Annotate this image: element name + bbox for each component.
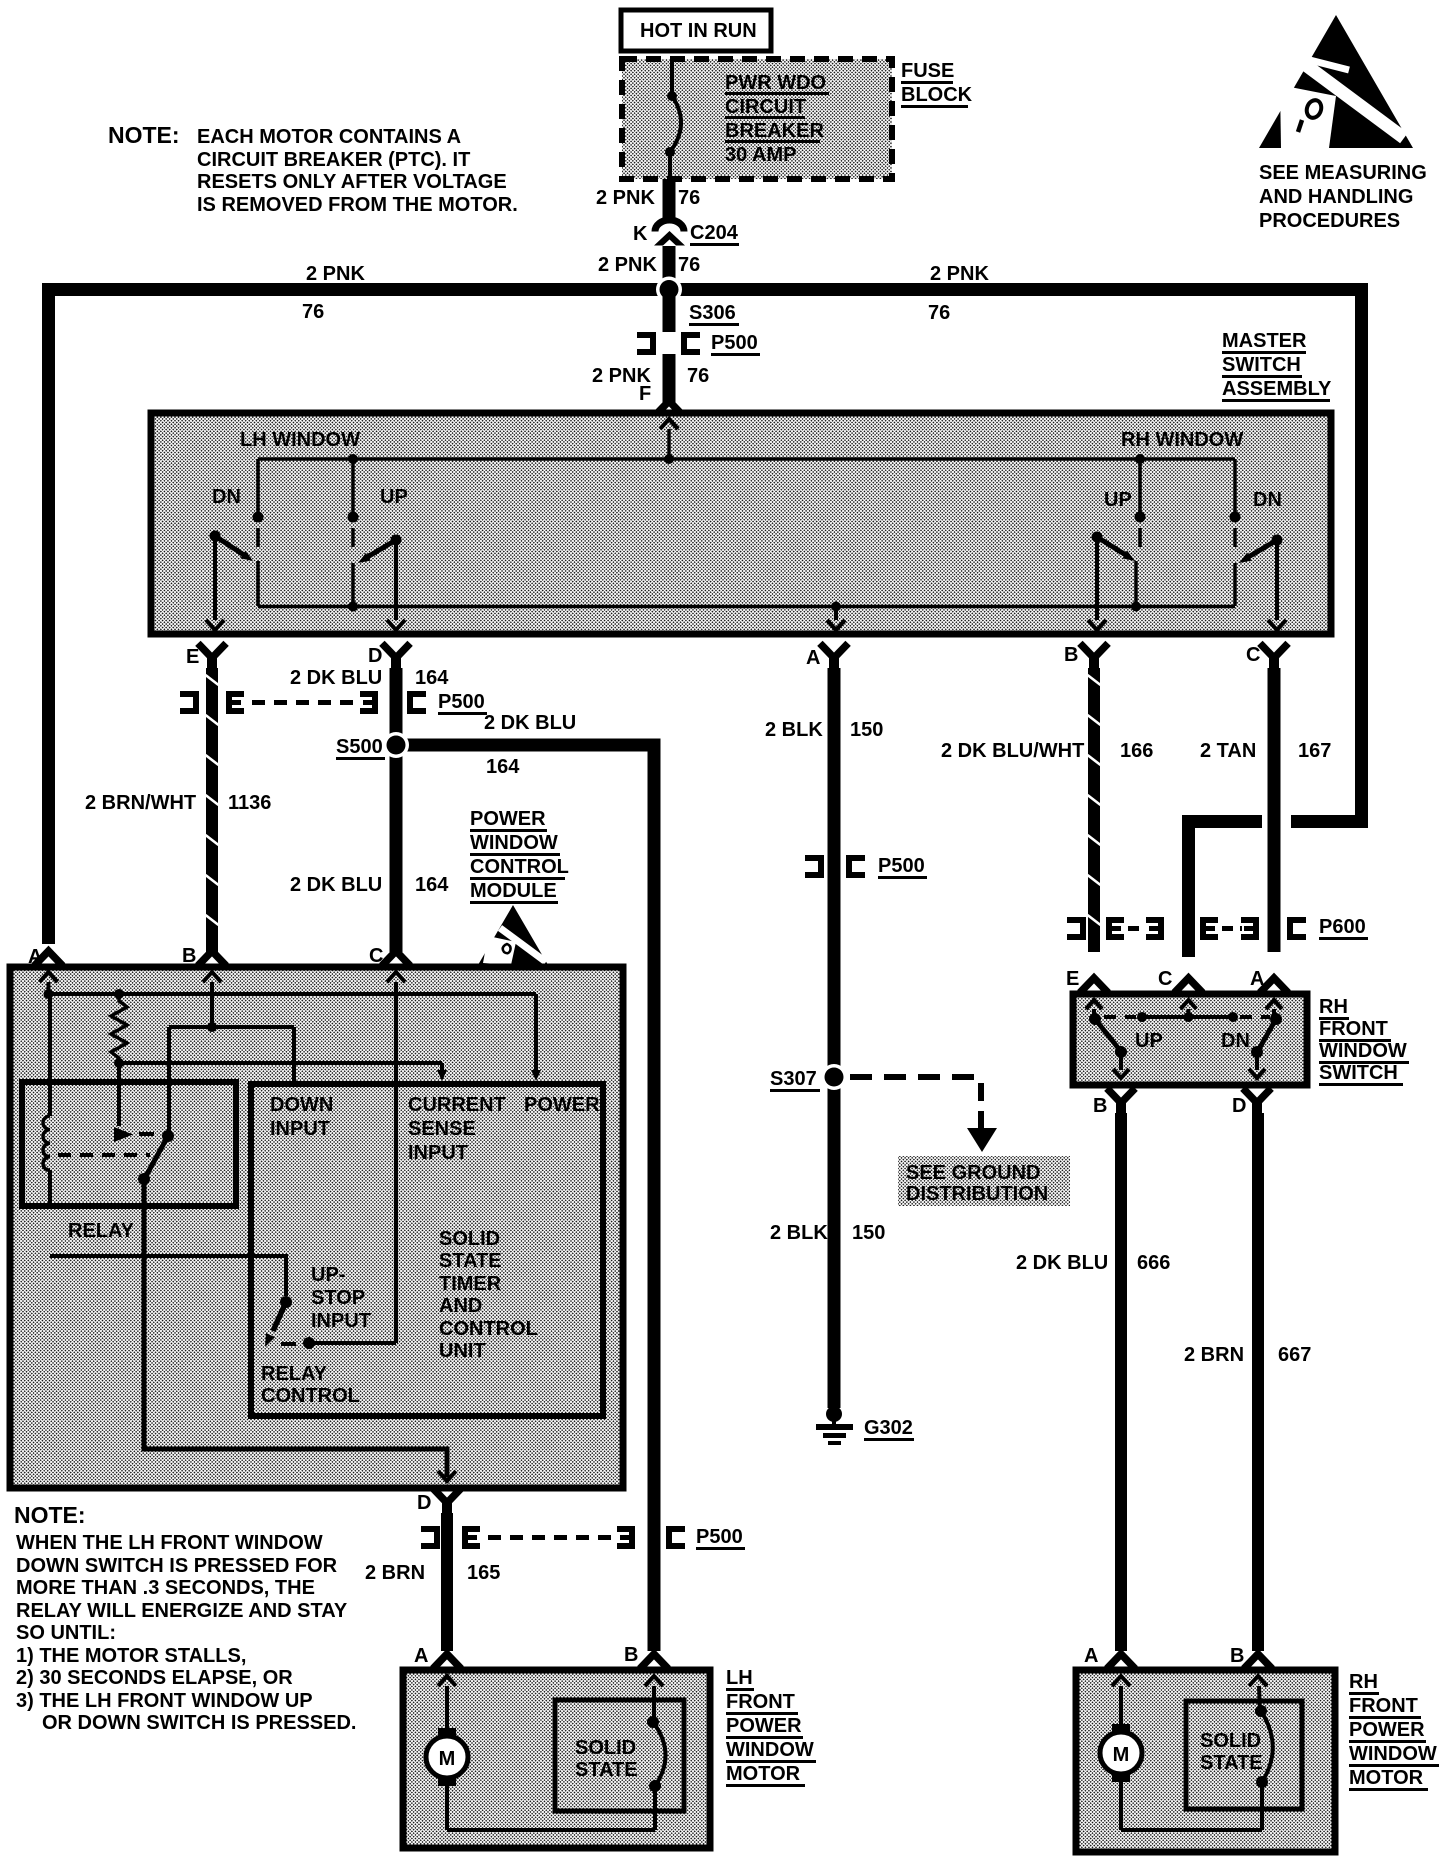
- connector P600: [1067, 917, 1306, 940]
- wire internal feed bus of master switch: [258, 419, 1235, 464]
- svg-text:WINDOW: WINDOW: [470, 832, 558, 854]
- svg-text:2 DK BLU/WHT: 2 DK BLU/WHT: [941, 740, 1084, 762]
- label 2 PNK 76: [596, 187, 700, 209]
- label DOWN INPUT: [270, 1094, 333, 1140]
- svg-text:A: A: [28, 946, 42, 968]
- label PWR WDO CIRCUIT BREAKER 30 AMP: [725, 72, 829, 166]
- connector P500 (ground wire): [805, 855, 865, 878]
- wire down input to solid state unit: [292, 1027, 296, 1082]
- terminal A of RH switch: [1250, 968, 1286, 990]
- switch RH window DN (master): [1230, 459, 1283, 606]
- circuit breaker PTC inside RH motor: [1255, 1705, 1273, 1788]
- svg-text:LH: LH: [726, 1667, 753, 1689]
- module pin A entry arrow: [40, 972, 58, 994]
- label P500: [878, 855, 927, 879]
- wire 2 DK BLU/WHT 166 master B to RH switch E: [1088, 668, 1101, 952]
- label 2 BLK 150 (upper): [765, 719, 883, 741]
- svg-text:SEE GROUND: SEE GROUND: [906, 1162, 1040, 1184]
- svg-text:FRONT: FRONT: [1349, 1695, 1418, 1717]
- wire 2 BRN 165 module D to LH motor A: [441, 1513, 453, 1651]
- label S306: [689, 302, 739, 326]
- solid state unit box (LH motor): [555, 1700, 684, 1811]
- svg-text:C: C: [1246, 644, 1260, 666]
- svg-text:76: 76: [928, 302, 950, 324]
- motor M (LH): [426, 1728, 468, 1786]
- RH switch pin A entry arrow: [1266, 1000, 1282, 1016]
- switch RH DN contact: [1249, 1013, 1282, 1078]
- terminal D of master switch: [368, 645, 408, 670]
- RH switch pin E entry arrow: [1086, 1000, 1102, 1016]
- label P500: [696, 1526, 745, 1550]
- wire RH motor internal loop: [1121, 1782, 1262, 1830]
- wire internal ground bus of master switch: [258, 602, 1235, 612]
- solid state timer and control unit box: [251, 1084, 603, 1416]
- svg-text:INPUT: INPUT: [270, 1118, 330, 1140]
- splice S500: [383, 732, 409, 758]
- svg-text:S500: S500: [336, 736, 383, 758]
- svg-text:NOTE:: NOTE:: [108, 122, 180, 148]
- terminal D of RH switch: [1232, 1091, 1269, 1117]
- svg-text:PWR WDO: PWR WDO: [725, 72, 826, 94]
- label SEE GROUND DISTRIBUTION: [898, 1156, 1070, 1206]
- svg-text:167: 167: [1298, 740, 1331, 762]
- svg-text:D: D: [417, 1492, 431, 1514]
- svg-text:P500: P500: [711, 332, 758, 354]
- svg-text:WINDOW: WINDOW: [1319, 1040, 1407, 1062]
- svg-text:2 PNK: 2 PNK: [930, 263, 989, 285]
- svg-text:CONTROL: CONTROL: [439, 1318, 538, 1340]
- svg-text:P500: P500: [696, 1526, 743, 1548]
- label P500: [438, 691, 487, 715]
- svg-text:667: 667: [1278, 1344, 1311, 1366]
- terminal B of RH switch: [1093, 1091, 1133, 1117]
- svg-text:SEE MEASURING: SEE MEASURING: [1259, 162, 1427, 184]
- svg-text:MORE THAN .3 SECONDS, THE: MORE THAN .3 SECONDS, THE: [16, 1577, 315, 1599]
- svg-text:OR DOWN SWITCH IS PRESSED.: OR DOWN SWITCH IS PRESSED.: [42, 1712, 356, 1734]
- wire 2 DK BLU 666 RH switch B to RH motor A: [1115, 1113, 1127, 1651]
- terminal C of RH switch: [1158, 968, 1200, 990]
- svg-text:RH: RH: [1349, 1671, 1378, 1693]
- wire master switch output B: [1088, 537, 1106, 630]
- svg-text:A: A: [1250, 968, 1264, 990]
- label UP-STOP INPUT: [311, 1264, 371, 1332]
- svg-text:MOTOR: MOTOR: [1349, 1767, 1424, 1789]
- label SOLID STATE: [575, 1737, 638, 1781]
- wire 2 BLK 150 master A to ground: [828, 668, 841, 1408]
- svg-text:SOLID: SOLID: [575, 1737, 636, 1759]
- svg-text:P600: P600: [1319, 916, 1366, 938]
- note: each motor contains a circuit breaker: [108, 122, 518, 216]
- circuit breaker PWR WDO 30 AMP: [665, 62, 681, 179]
- module pin C entry arrow: [387, 972, 405, 1343]
- wire module internal feed from A: [44, 989, 537, 999]
- wire 2 PNK 76 bus right branch to RH front window switch pin C: [675, 290, 1362, 823]
- ground G302: [816, 1406, 853, 1445]
- svg-text:B: B: [1064, 644, 1078, 666]
- label 2 BLK 150 (lower): [770, 1222, 885, 1244]
- svg-text:EACH MOTOR CONTAINS A: EACH MOTOR CONTAINS A: [197, 126, 461, 148]
- terminal A of RH motor: [1084, 1645, 1133, 1667]
- svg-text:SOLID: SOLID: [1200, 1730, 1261, 1752]
- svg-text:2 BRN: 2 BRN: [1184, 1344, 1244, 1366]
- terminal A of module: [28, 946, 60, 968]
- terminal A of LH motor: [414, 1645, 459, 1667]
- svg-text:164: 164: [415, 874, 449, 896]
- svg-text:WINDOW: WINDOW: [1349, 1743, 1437, 1765]
- svg-text:CIRCUIT BREAKER (PTC). IT: CIRCUIT BREAKER (PTC). IT: [197, 149, 470, 171]
- label 2 PNK 76: [598, 254, 700, 276]
- svg-text:A: A: [414, 1645, 428, 1667]
- svg-text:DISTRIBUTION: DISTRIBUTION: [906, 1183, 1048, 1205]
- splice S307: [821, 1064, 847, 1090]
- label 2 BRN/WHT 1136: [85, 792, 271, 814]
- svg-text:166: 166: [1120, 740, 1153, 762]
- solid state unit box (RH motor): [1186, 1701, 1302, 1809]
- svg-text:UP: UP: [380, 486, 408, 508]
- wire current sense input to solid state unit: [119, 1063, 447, 1081]
- node HOT IN RUN feed box: [621, 10, 771, 51]
- connector C204 pin K: [633, 220, 685, 245]
- LH motor pin A entry arrow: [438, 1676, 456, 1729]
- module pin B entry arrow: [203, 972, 221, 1027]
- label 2 PNK 76 (left bus): [302, 263, 365, 323]
- wire 2 DK BLU 164 S500 branch to LH motor B: [402, 745, 654, 1651]
- terminal F at master switch assembly: [658, 401, 681, 413]
- svg-text:SWITCH: SWITCH: [1222, 354, 1301, 376]
- svg-text:S307: S307: [770, 1068, 817, 1090]
- label 2 DK BLU/WHT 166: [941, 740, 1153, 762]
- svg-text:RH: RH: [1319, 996, 1348, 1018]
- switch RH UP contact: [1089, 1013, 1129, 1078]
- label LH FRONT POWER WINDOW MOTOR: [726, 1667, 816, 1787]
- label 2 DK BLU 164 (lower): [290, 874, 449, 896]
- label P500: [711, 332, 760, 356]
- label 2 PNK 76 (right bus): [928, 263, 989, 324]
- RH switch pin C entry arrow: [1181, 1000, 1197, 1017]
- svg-text:PROCEDURES: PROCEDURES: [1259, 210, 1400, 232]
- RH motor pin B entry arrow: [1249, 1676, 1267, 1711]
- svg-text:C: C: [369, 945, 383, 967]
- master switch assembly box: [151, 413, 1331, 634]
- wire 2 PNK 76 fuse block to C204: [663, 179, 676, 222]
- label POWER WINDOW CONTROL MODULE: [470, 808, 569, 904]
- switch LH window UP (master): [348, 459, 402, 606]
- svg-text:M: M: [1113, 1744, 1130, 1766]
- RH front window switch box: [1073, 994, 1307, 1085]
- svg-text:STATE: STATE: [439, 1250, 502, 1272]
- svg-text:TIMER: TIMER: [439, 1273, 502, 1295]
- label RH FRONT WINDOW SWITCH: [1319, 996, 1409, 1086]
- switch LH window DN (master): [210, 459, 264, 606]
- wire 2 PNK 76 bus left branch to power window control module pin A: [49, 290, 664, 945]
- svg-text:C204: C204: [690, 222, 739, 244]
- svg-text:F: F: [639, 383, 651, 405]
- svg-text:2 BRN: 2 BRN: [365, 1562, 425, 1584]
- terminal B of module: [182, 945, 224, 967]
- svg-text:76: 76: [678, 187, 700, 209]
- svg-text:AND: AND: [439, 1295, 482, 1317]
- svg-text:DN: DN: [212, 486, 241, 508]
- svg-text:STATE: STATE: [575, 1759, 638, 1781]
- terminal B of LH motor: [624, 1644, 666, 1666]
- svg-text:CURRENT: CURRENT: [408, 1094, 506, 1116]
- wire dashed branch to ground distribution: [850, 1077, 997, 1152]
- svg-text:INPUT: INPUT: [408, 1142, 468, 1164]
- svg-text:2 DK BLU: 2 DK BLU: [290, 667, 382, 689]
- svg-text:M: M: [439, 1748, 456, 1770]
- svg-text:2 PNK: 2 PNK: [596, 187, 655, 209]
- svg-text:DN: DN: [1221, 1030, 1250, 1052]
- wire master switch output A: [827, 606, 845, 630]
- RH front power window motor box: [1076, 1670, 1335, 1852]
- svg-text:1) THE MOTOR STALLS,: 1) THE MOTOR STALLS,: [16, 1645, 246, 1667]
- label FUSE BLOCK: [901, 60, 973, 108]
- ESD symbol at module: [478, 905, 548, 965]
- svg-text:E: E: [1066, 968, 1079, 990]
- wire relay fixed contact: [114, 1063, 154, 1142]
- switch RH window UP (master): [1092, 459, 1146, 606]
- svg-text:STOP: STOP: [311, 1287, 365, 1309]
- wire LH motor internal loop: [447, 1786, 655, 1830]
- svg-text:2 TAN: 2 TAN: [1200, 740, 1256, 762]
- svg-text:CIRCUIT: CIRCUIT: [725, 96, 806, 118]
- svg-text:SOLID: SOLID: [439, 1228, 500, 1250]
- circuit breaker PTC inside LH motor: [647, 1716, 666, 1792]
- svg-text:RELAY WILL ENERGIZE AND STAY: RELAY WILL ENERGIZE AND STAY: [16, 1600, 348, 1622]
- wire master switch output E: [206, 536, 224, 630]
- svg-text:DN: DN: [1253, 489, 1282, 511]
- svg-text:BREAKER: BREAKER: [725, 120, 824, 142]
- svg-text:UP: UP: [1104, 489, 1132, 511]
- svg-text:B: B: [1093, 1095, 1107, 1117]
- svg-text:RH WINDOW: RH WINDOW: [1121, 429, 1243, 451]
- svg-text:FRONT: FRONT: [726, 1691, 795, 1713]
- wire up-stop input from coil region: [50, 1256, 286, 1296]
- label 2 BRN 667: [1184, 1344, 1311, 1366]
- svg-text:SENSE: SENSE: [408, 1118, 476, 1140]
- svg-text:164: 164: [486, 756, 520, 778]
- svg-text:POWER: POWER: [470, 808, 546, 830]
- svg-text:FRONT: FRONT: [1319, 1018, 1388, 1040]
- svg-text:S306: S306: [689, 302, 736, 324]
- svg-text:MASTER: MASTER: [1222, 330, 1307, 352]
- terminal B of master switch: [1064, 644, 1106, 670]
- svg-text:WINDOW: WINDOW: [726, 1739, 814, 1761]
- wire relay control output to module D: [144, 1179, 456, 1481]
- relay mechanical link (dashed): [58, 1153, 150, 1157]
- motor M (RH): [1100, 1724, 1142, 1782]
- svg-text:2 BRN/WHT: 2 BRN/WHT: [85, 792, 196, 814]
- svg-text:RESETS ONLY AFTER VOLTAGE: RESETS ONLY AFTER VOLTAGE: [197, 171, 507, 193]
- wire B down input junction: [169, 1022, 294, 1032]
- up-stop switch: [265, 1296, 396, 1349]
- svg-text:2 PNK: 2 PNK: [306, 263, 365, 285]
- ESD static sensitive symbol: [1259, 15, 1413, 148]
- svg-text:POWER: POWER: [524, 1094, 600, 1116]
- svg-text:C: C: [1158, 968, 1172, 990]
- svg-text:2 DK BLU: 2 DK BLU: [484, 712, 576, 734]
- resistor (current sense shunt): [111, 994, 127, 1063]
- wire 2 PNK 76 S306 to P500: [663, 296, 676, 332]
- svg-text:2 PNK: 2 PNK: [598, 254, 657, 276]
- wire 2 DK BLU 164 master D to module C: [390, 668, 403, 952]
- label 2 BRN 165: [365, 1562, 500, 1584]
- connector P500 (module side): [180, 691, 426, 714]
- svg-text:76: 76: [678, 254, 700, 276]
- label RELAY CONTROL: [261, 1363, 360, 1407]
- wire 2 TAN 167 master C to RH switch A: [1268, 668, 1281, 952]
- svg-text:A: A: [1084, 1645, 1098, 1667]
- svg-text:WHEN THE LH FRONT WINDOW: WHEN THE LH FRONT WINDOW: [16, 1532, 323, 1554]
- svg-text:P500: P500: [438, 691, 485, 713]
- label 2 DK BLU 666: [1016, 1252, 1170, 1274]
- wire down input to relay armature: [167, 1027, 171, 1133]
- svg-text:E: E: [186, 646, 199, 668]
- relay coil: [43, 994, 50, 1203]
- svg-text:150: 150: [852, 1222, 885, 1244]
- svg-text:2) 30 SECONDS ELAPSE, OR: 2) 30 SECONDS ELAPSE, OR: [16, 1667, 293, 1689]
- svg-text:A: A: [806, 647, 820, 669]
- svg-text:30 AMP: 30 AMP: [725, 144, 797, 166]
- svg-text:CONTROL: CONTROL: [261, 1385, 360, 1407]
- svg-text:2 BLK: 2 BLK: [770, 1222, 828, 1244]
- terminal B of RH motor: [1230, 1645, 1270, 1667]
- svg-text:UP-: UP-: [311, 1264, 345, 1286]
- splice S306: [656, 277, 682, 303]
- label 2 DK BLU 164 (upper): [290, 667, 449, 689]
- svg-text:76: 76: [687, 365, 709, 387]
- svg-text:ASSEMBLY: ASSEMBLY: [1222, 378, 1332, 400]
- svg-text:B: B: [182, 945, 196, 967]
- svg-text:FUSE: FUSE: [901, 60, 954, 82]
- connector P500 on feed wire: [637, 332, 700, 355]
- svg-text:IS REMOVED FROM THE MOTOR.: IS REMOVED FROM THE MOTOR.: [197, 194, 518, 216]
- svg-text:BLOCK: BLOCK: [901, 84, 973, 106]
- label MASTER SWITCH ASSEMBLY: [1222, 330, 1332, 402]
- label 2 DK BLU 164 (branch): [484, 712, 576, 778]
- svg-text:INPUT: INPUT: [311, 1310, 371, 1332]
- svg-text:SO UNTIL:: SO UNTIL:: [16, 1622, 116, 1644]
- svg-text:164: 164: [415, 667, 449, 689]
- svg-text:150: 150: [850, 719, 883, 741]
- svg-text:MOTOR: MOTOR: [726, 1763, 801, 1785]
- svg-text:POWER: POWER: [726, 1715, 802, 1737]
- LH motor pin B entry arrow: [645, 1676, 663, 1720]
- label C204: [690, 222, 739, 246]
- svg-text:3) THE LH FRONT WINDOW UP: 3) THE LH FRONT WINDOW UP: [16, 1690, 313, 1712]
- terminal C of module: [369, 945, 408, 967]
- label SOLID STATE: [1200, 1730, 1263, 1774]
- wire 2 PNK jog toward P600: [1182, 822, 1368, 958]
- wire RH switch rest contact bar: [1104, 1012, 1270, 1022]
- svg-text:2 BLK: 2 BLK: [765, 719, 823, 741]
- svg-text:666: 666: [1137, 1252, 1170, 1274]
- svg-text:2 DK BLU: 2 DK BLU: [1016, 1252, 1108, 1274]
- label 2 TAN 167: [1200, 740, 1331, 762]
- svg-text:UNIT: UNIT: [439, 1340, 486, 1362]
- svg-text:76: 76: [302, 301, 324, 323]
- terminal E of RH switch: [1066, 968, 1106, 990]
- label CURRENT POWER SENSE INPUT: [408, 1094, 600, 1164]
- relay box: [22, 1082, 236, 1206]
- svg-text:AND HANDLING: AND HANDLING: [1259, 186, 1413, 208]
- svg-text:HOT IN RUN: HOT IN RUN: [640, 20, 757, 42]
- wire 2 BRN 667 RH switch D to RH motor B: [1252, 1113, 1264, 1651]
- label SEE MEASURING AND HANDLING PROCEDURES: [1259, 162, 1427, 232]
- svg-text:RELAY: RELAY: [261, 1363, 328, 1385]
- svg-text:B: B: [1230, 1645, 1244, 1667]
- terminal D of module: [417, 1491, 459, 1515]
- label S307: [770, 1068, 820, 1092]
- svg-text:DOWN: DOWN: [270, 1094, 333, 1116]
- svg-text:STATE: STATE: [1200, 1752, 1263, 1774]
- terminal A of master switch: [806, 646, 846, 670]
- svg-text:LH WINDOW: LH WINDOW: [240, 429, 360, 451]
- label RH FRONT POWER WINDOW MOTOR: [1349, 1671, 1439, 1791]
- svg-text:RELAY: RELAY: [68, 1220, 135, 1242]
- svg-text:2 DK BLU: 2 DK BLU: [290, 874, 382, 896]
- svg-text:165: 165: [467, 1562, 500, 1584]
- svg-text:B: B: [624, 1644, 638, 1666]
- connector P500 (lower): [421, 1526, 685, 1549]
- terminal E of master switch: [186, 646, 224, 670]
- label G302: [864, 1417, 914, 1441]
- LH front power window motor box: [403, 1670, 710, 1848]
- RH motor pin A entry arrow: [1112, 1676, 1130, 1725]
- svg-text:1136: 1136: [228, 792, 271, 814]
- note: relay latch behaviour: [14, 1502, 356, 1734]
- svg-text:P500: P500: [878, 855, 925, 877]
- svg-text:D: D: [368, 645, 382, 667]
- svg-text:D: D: [1232, 1095, 1246, 1117]
- node resistor output junction: [114, 1058, 124, 1068]
- svg-text:DOWN SWITCH IS PRESSED FOR: DOWN SWITCH IS PRESSED FOR: [16, 1555, 338, 1577]
- svg-text:POWER: POWER: [1349, 1719, 1425, 1741]
- svg-text:K: K: [633, 223, 648, 245]
- wire master switch output C: [1268, 540, 1286, 630]
- label SOLID STATE TIMER AND CONTROL UNIT: [439, 1228, 538, 1362]
- relay armature switch: [138, 1130, 174, 1185]
- wire master switch output D: [387, 540, 405, 630]
- terminal C of master switch: [1246, 644, 1286, 670]
- label S500: [336, 736, 385, 760]
- wire 2 BRN/WHT 1136 master E to module B: [206, 668, 219, 952]
- label P600: [1319, 916, 1368, 940]
- wire power input to solid state unit: [531, 994, 541, 1081]
- svg-text:UP: UP: [1135, 1030, 1163, 1052]
- svg-text:CONTROL: CONTROL: [470, 856, 569, 878]
- fuse block (dashed box): [622, 59, 892, 179]
- label 2 PNK 76 and pin F: [592, 365, 709, 405]
- wire 2 PNK 76 C204 to splice S306: [663, 246, 676, 285]
- svg-text:MODULE: MODULE: [470, 880, 557, 902]
- wire 2 PNK 76 P500 to master switch pin F: [663, 354, 676, 405]
- power window control module box: [10, 967, 623, 1488]
- svg-text:G302: G302: [864, 1417, 913, 1439]
- svg-text:SWITCH: SWITCH: [1319, 1062, 1398, 1084]
- svg-text:NOTE:: NOTE:: [14, 1502, 86, 1528]
